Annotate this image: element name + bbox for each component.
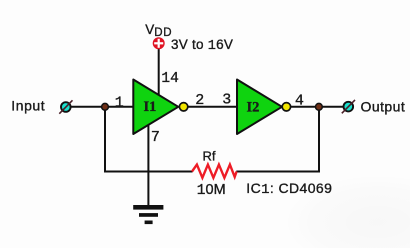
wire feedback left vertical xyxy=(104,107,106,172)
wire pin7 to ground stem xyxy=(147,125,149,207)
ground xyxy=(133,205,163,224)
svg-text:I2: I2 xyxy=(247,100,260,116)
svg-text:I1: I1 xyxy=(144,99,157,115)
wire feedback horizontal left xyxy=(104,171,193,173)
svg-text:7: 7 xyxy=(151,129,160,146)
node bubble I2 output xyxy=(282,103,290,111)
svg-text:Output: Output xyxy=(361,98,406,114)
wire VDD vertical xyxy=(158,48,160,96)
wire feedback right vertical xyxy=(318,107,320,173)
node bubble I1 output xyxy=(179,103,187,111)
terminal input xyxy=(59,100,72,113)
svg-text:3V to 16V: 3V to 16V xyxy=(171,37,233,54)
wire input to I1 xyxy=(71,106,133,108)
node A input junction xyxy=(102,103,109,110)
resistor Rf zigzag xyxy=(192,165,237,178)
svg-text:1: 1 xyxy=(115,94,124,111)
svg-text:2: 2 xyxy=(195,92,204,109)
wire feedback horizontal right xyxy=(236,171,320,173)
svg-text:3: 3 xyxy=(222,92,231,109)
VDD supply symbol xyxy=(153,37,165,49)
svg-text:10M: 10M xyxy=(197,182,226,199)
svg-text:Rf: Rf xyxy=(203,149,216,164)
terminal output xyxy=(342,100,355,113)
wire I1 output to I2 input xyxy=(188,106,237,108)
svg-text:14: 14 xyxy=(161,71,178,87)
op-amp U1 inverter I1 triangle xyxy=(133,80,178,135)
op-amp U2 inverter I2 triangle xyxy=(237,80,282,135)
wire I2 output to output terminal xyxy=(291,106,343,108)
svg-text:4: 4 xyxy=(295,93,304,110)
svg-text:Input: Input xyxy=(11,98,45,114)
svg-text:VDD: VDD xyxy=(145,22,172,39)
node B output junction xyxy=(316,103,323,110)
